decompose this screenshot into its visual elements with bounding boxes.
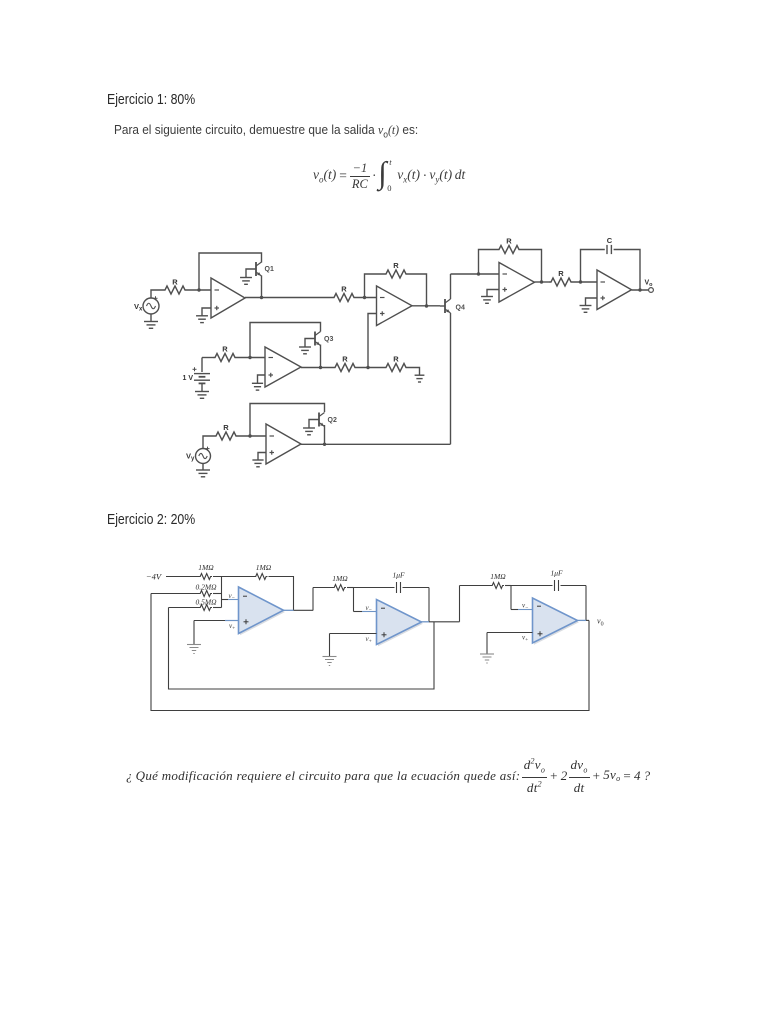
svg-text:0.5MΩ: 0.5MΩ (195, 598, 217, 607)
svg-text:Vo: Vo (645, 280, 654, 289)
svg-text:−4V: −4V (146, 572, 163, 582)
svg-text:Vx: Vx (134, 302, 143, 313)
svg-text:R: R (172, 278, 178, 287)
svg-text:v0: v0 (597, 617, 604, 628)
svg-text:v+: v+ (522, 634, 528, 644)
svg-text:R: R (341, 285, 347, 294)
svg-text:Q2: Q2 (328, 417, 337, 424)
svg-text:0.2MΩ: 0.2MΩ (195, 583, 217, 592)
svg-text:R: R (558, 269, 564, 278)
svg-text:R: R (393, 355, 399, 364)
svg-text:Q4: Q4 (456, 305, 465, 312)
svg-text:R: R (342, 355, 348, 364)
svg-text:Q1: Q1 (265, 266, 274, 273)
svg-text:1 V: 1 V (182, 375, 193, 382)
svg-text:R: R (222, 345, 228, 354)
svg-text:1μF: 1μF (392, 571, 405, 580)
svg-text:v+: v+ (366, 635, 372, 645)
svg-text:1μF: 1μF (550, 569, 563, 578)
svg-text:C: C (607, 236, 613, 245)
svg-text:v+: v+ (229, 622, 235, 632)
svg-text:1MΩ: 1MΩ (332, 574, 348, 583)
svg-text:1MΩ: 1MΩ (490, 572, 506, 581)
svg-text:R: R (393, 261, 399, 270)
svg-text:Vy: Vy (186, 452, 195, 463)
svg-text:1MΩ: 1MΩ (198, 563, 214, 572)
svg-text:v−: v− (366, 604, 372, 614)
svg-text:1MΩ: 1MΩ (256, 563, 272, 572)
svg-text:R: R (223, 423, 229, 432)
svg-text:Q3: Q3 (324, 336, 333, 343)
svg-text:v−: v− (229, 592, 235, 602)
svg-text:R: R (506, 237, 512, 246)
